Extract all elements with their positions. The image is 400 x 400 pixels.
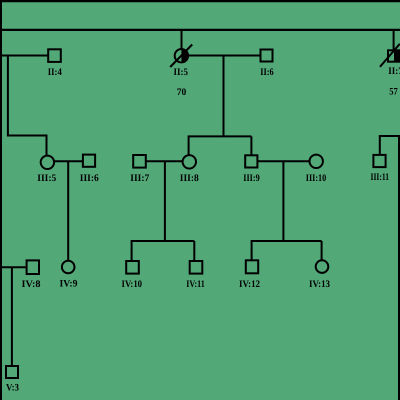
svg-text:III:5: III:5 bbox=[37, 173, 56, 184]
svg-text:IV:13: IV:13 bbox=[309, 279, 330, 290]
svg-text:IV:11: IV:11 bbox=[186, 279, 205, 290]
svg-text:70: 70 bbox=[177, 87, 187, 98]
svg-text:IV:8: IV:8 bbox=[22, 279, 41, 290]
svg-text:III:11: III:11 bbox=[371, 172, 390, 183]
svg-text:V:3: V:3 bbox=[6, 383, 19, 394]
svg-text:III:6: III:6 bbox=[80, 173, 99, 184]
svg-text:57: 57 bbox=[389, 87, 398, 98]
svg-text:II:6: II:6 bbox=[260, 67, 274, 78]
svg-text:II:4: II:4 bbox=[48, 67, 62, 78]
svg-text:IV:9: IV:9 bbox=[60, 279, 78, 290]
svg-text:III:9: III:9 bbox=[243, 173, 260, 184]
svg-text:II:5: II:5 bbox=[174, 67, 189, 78]
svg-text:IV:12: IV:12 bbox=[239, 279, 260, 290]
svg-text:III:7: III:7 bbox=[130, 173, 149, 184]
svg-text:IV:10: IV:10 bbox=[122, 279, 143, 290]
svg-text:II:7: II:7 bbox=[388, 66, 400, 77]
svg-text:III:10: III:10 bbox=[306, 173, 327, 184]
svg-text:III:8: III:8 bbox=[180, 173, 199, 184]
